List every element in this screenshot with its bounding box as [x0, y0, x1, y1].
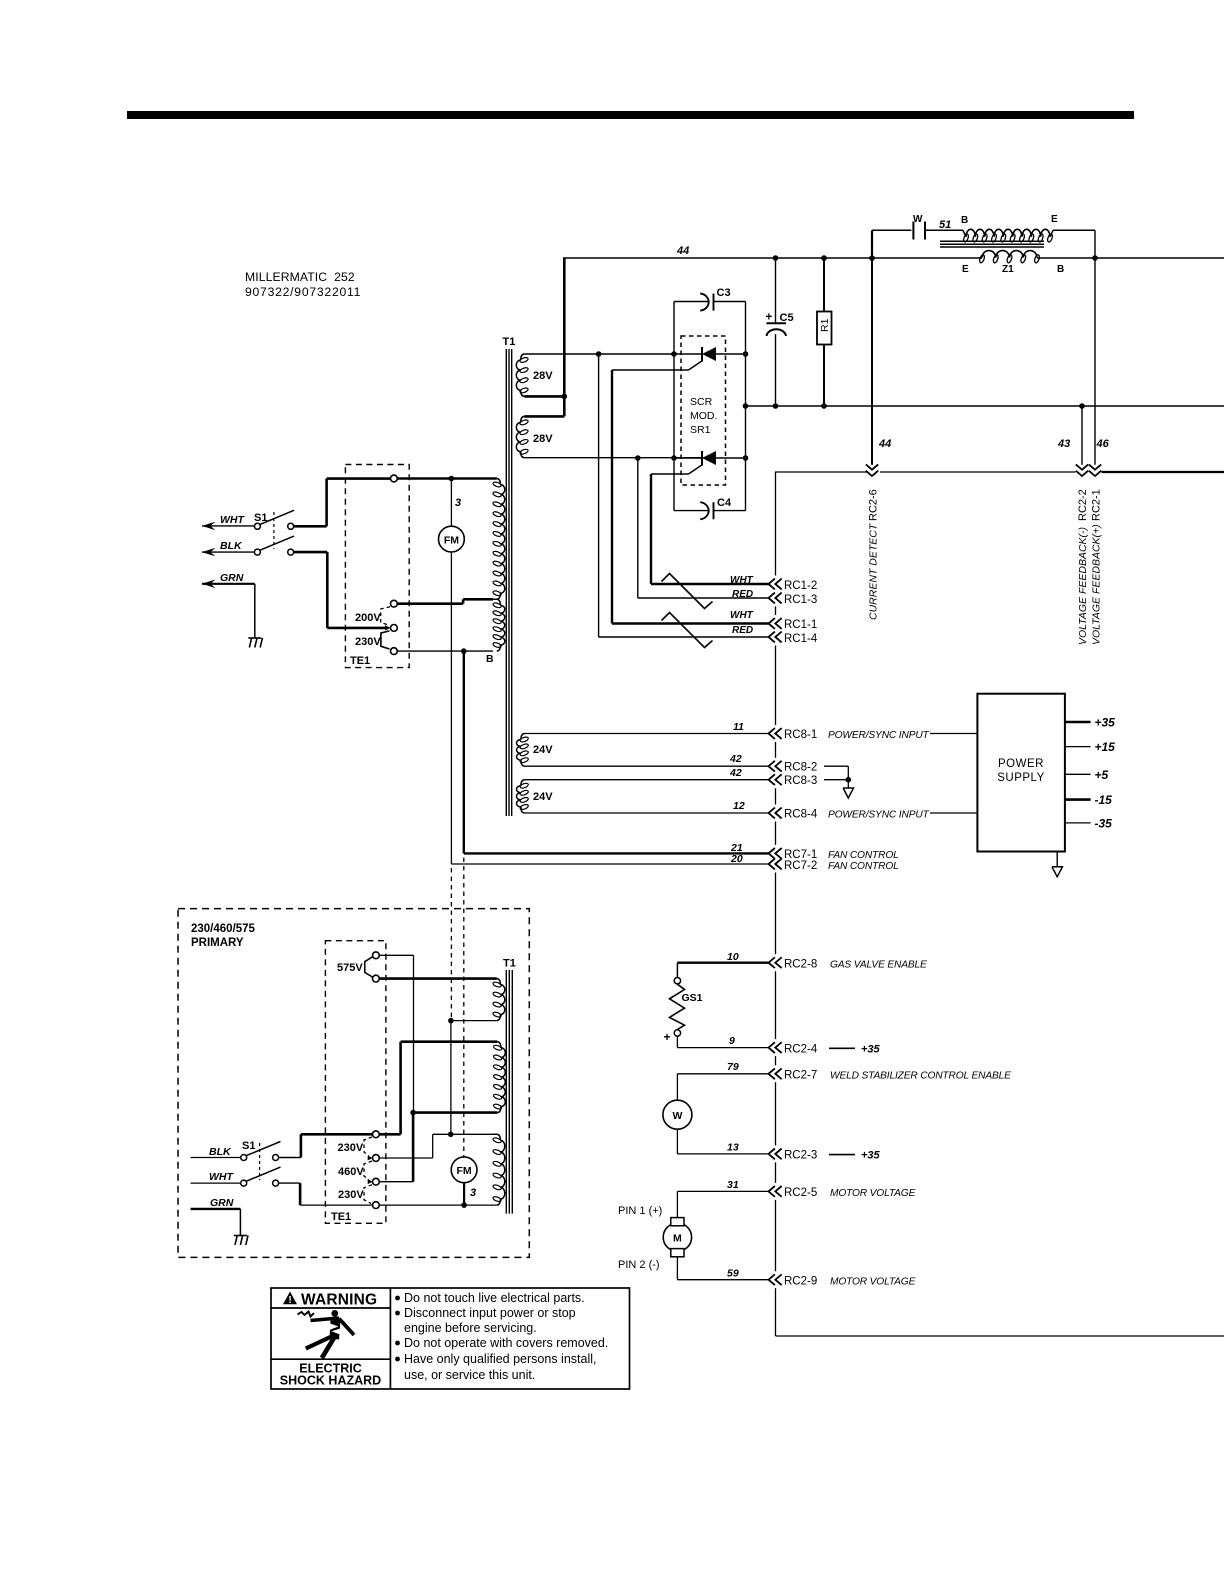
dashed link wire x464 from RC7-1 area	[463, 858, 465, 1158]
wire 59 RC2-9	[677, 1279, 768, 1281]
svg-text:RC1-1: RC1-1	[784, 619, 817, 631]
svg-text:SUPPLY: SUPPLY	[997, 772, 1045, 784]
svg-text:RED: RED	[732, 625, 753, 636]
svg-text:230V: 230V	[338, 1142, 364, 1154]
svg-text:engine before servicing.: engine before servicing.	[404, 1321, 537, 1335]
svg-text:RC2-9: RC2-9	[784, 1275, 817, 1287]
twisted pair mark lower	[662, 613, 713, 648]
svg-text:RC2-8: RC2-8	[784, 959, 817, 971]
motor M wire feed	[676, 1191, 678, 1217]
node dot Z1-B on net44	[1092, 255, 1098, 261]
T1 24V winding 2	[521, 780, 525, 786]
RC8-2/RC8-3 ground tie	[824, 765, 848, 767]
wire thick riser to winding2 top	[401, 1040, 498, 1043]
svg-text:T1: T1	[503, 336, 516, 348]
svg-text:59: 59	[727, 1268, 739, 1280]
input wire WHT with arrow	[202, 522, 216, 531]
connector RC7-1	[769, 848, 775, 859]
svg-text:RC2-4: RC2-4	[784, 1044, 818, 1056]
svg-text:46: 46	[1096, 438, 1110, 450]
wire S1-BLK to TE1-C	[294, 551, 328, 554]
wire 13 RC2-3	[677, 1153, 768, 1155]
svg-text:T1: T1	[503, 958, 516, 970]
svg-text:B: B	[1057, 264, 1064, 275]
svg-text:3: 3	[455, 497, 461, 509]
svg-text:RC2-1: RC2-1	[1091, 489, 1103, 521]
wire bus bottom run to right edge	[776, 1335, 1224, 1337]
svg-text:10: 10	[727, 951, 739, 963]
wire TE1-D to T1 primary bottom	[397, 650, 493, 652]
svg-text:RC2-5: RC2-5	[784, 1187, 817, 1199]
node dot C5 on net44	[773, 255, 779, 261]
TE1 lower brackets dashed	[364, 1137, 372, 1156]
connector RC2-1 chevron	[1089, 464, 1101, 469]
wire winding1 bottom to link	[451, 1020, 497, 1022]
TE1 terminal A	[391, 475, 398, 482]
svg-text:VOLTAGE FEEDBACK(-): VOLTAGE FEEDBACK(-)	[1077, 527, 1089, 645]
svg-text:43: 43	[1057, 438, 1070, 450]
twisted pair mark upper	[662, 574, 713, 609]
svg-text:GRN: GRN	[220, 572, 244, 584]
svg-text:Disconnect input power or stop: Disconnect input power or stop	[404, 1306, 576, 1320]
svg-text:WHT: WHT	[209, 1171, 234, 1183]
svg-text:GS1: GS1	[682, 992, 703, 1004]
power supply -35 output	[1065, 822, 1091, 824]
connector RC1-4	[769, 632, 775, 643]
svg-text:RC1-4: RC1-4	[784, 633, 818, 645]
wire TE1-B to T1 primary tap	[397, 602, 463, 605]
svg-text:MOTOR VOLTAGE: MOTOR VOLTAGE	[830, 1188, 916, 1199]
wire 42 RC8-2	[525, 765, 769, 767]
connector RC7-2	[769, 859, 775, 870]
svg-text:BLK: BLK	[220, 540, 243, 552]
TE1 230V jumper bracket	[381, 631, 390, 649]
power supply input wires	[930, 733, 977, 735]
svg-text:230V: 230V	[338, 1189, 364, 1201]
ground upper	[248, 637, 261, 639]
svg-text:RC2-2: RC2-2	[1077, 489, 1089, 521]
svg-text:44: 44	[676, 245, 689, 257]
svg-text:CURRENT DETECT: CURRENT DETECT	[868, 522, 880, 620]
node dot W-branch on net44	[869, 255, 875, 261]
svg-text:RC2-6: RC2-6	[868, 489, 880, 521]
svg-text:RED: RED	[732, 589, 753, 600]
svg-text:Do not touch live electrical p: Do not touch live electrical parts.	[404, 1291, 585, 1305]
wire net 44 top horizontal	[563, 257, 982, 259]
wire S1-WHT to TE1-A	[294, 525, 327, 528]
fan motor FM lower	[451, 1157, 477, 1183]
svg-text:TE1: TE1	[350, 655, 370, 667]
fan motor FM	[439, 526, 465, 552]
svg-text:PIN 1 (+): PIN 1 (+)	[618, 1205, 662, 1217]
svg-text:GAS VALVE ENABLE: GAS VALVE ENABLE	[830, 960, 927, 971]
node dot R1 on net44	[821, 255, 827, 261]
connector RC1-2	[769, 579, 775, 590]
svg-text:RC2-3: RC2-3	[784, 1150, 817, 1162]
wire RC1-4 red from SCR1 cathode	[598, 354, 600, 637]
inductor Z1 secondary winding E-B on net44	[982, 251, 1037, 258]
svg-text:+: +	[766, 312, 773, 324]
svg-text:C3: C3	[717, 287, 731, 299]
svg-text:+35: +35	[1095, 716, 1116, 730]
T1 28V winding 2	[521, 416, 525, 422]
wire 44 current-detect vertical to RC2-6	[871, 258, 873, 465]
svg-text:WHT: WHT	[730, 575, 754, 586]
T1 lower core	[505, 970, 507, 1214]
svg-text:31: 31	[727, 1179, 739, 1191]
wire TE1-1 to thick riser	[379, 1133, 400, 1136]
input wire BLK lower	[191, 1157, 241, 1159]
ground lower	[234, 1235, 247, 1237]
wire S1-BLK lower to TE1-1	[279, 1157, 301, 1159]
svg-text:RC1-3: RC1-3	[784, 594, 817, 606]
wire TE1-2 to tap link	[379, 1157, 432, 1159]
thyristor SCR1	[674, 353, 702, 355]
thyristor SCR2	[674, 457, 702, 459]
TE1 lower terminal 2 with arrow	[373, 1155, 380, 1162]
wire 79 RC2-7	[677, 1073, 768, 1075]
svg-text:C4: C4	[717, 497, 732, 509]
capacitor C3	[700, 294, 708, 311]
power supply box	[977, 694, 1065, 852]
TE1 lower terminal 3 with arrow	[373, 1178, 380, 1185]
wire 43 vertical	[1079, 403, 1085, 409]
T1 lower winding 2	[497, 1042, 501, 1048]
svg-text:WHT: WHT	[730, 610, 754, 621]
connector RC1-3	[769, 593, 775, 604]
connector RC2-6 chevron	[866, 464, 878, 469]
svg-text:POWER/SYNC INPUT: POWER/SYNC INPUT	[828, 730, 930, 741]
warning bullet list	[395, 1296, 400, 1301]
T1 core	[505, 349, 507, 816]
page top rule	[127, 111, 1134, 119]
svg-text:PRIMARY: PRIMARY	[191, 937, 244, 949]
power supply +5 output	[1065, 773, 1091, 775]
input wire WHT lower	[191, 1182, 241, 1184]
electric shock hazard pictogram	[298, 1312, 315, 1317]
wire TE1-3 to winding2 bottom riser	[379, 1181, 413, 1183]
svg-text:Z1: Z1	[1002, 264, 1014, 275]
svg-text:RC2-7: RC2-7	[784, 1070, 817, 1082]
wire TE1-A to T1 primary top	[397, 477, 496, 480]
svg-text:R1: R1	[819, 318, 831, 332]
warning box frame	[271, 1288, 630, 1389]
wire RC1-2 wht from SCR2 gate	[651, 583, 769, 585]
svg-text:230/460/575: 230/460/575	[191, 923, 256, 935]
svg-text:RC7-2: RC7-2	[784, 860, 817, 872]
svg-text:+: +	[664, 1030, 671, 1044]
TE1 200V bracket dashed	[381, 607, 390, 625]
wire SCR output net y406	[746, 405, 1224, 407]
TE1 lower 575V terminals	[373, 952, 380, 959]
SCR module outer box with C3/C4	[674, 301, 709, 303]
input wire GRN with arrow to ground	[202, 580, 216, 589]
gas solenoid GS1	[676, 963, 678, 978]
wire main bus x775 with connector gaps	[775, 472, 777, 576]
svg-text:575V: 575V	[337, 962, 363, 974]
connector RC1-1	[769, 618, 775, 629]
terminal board TE1 upper dashed box	[345, 465, 409, 668]
capacitor W (plug W / 51)	[871, 230, 873, 258]
motor W weld stabilizer	[676, 1074, 678, 1100]
wire 12 RC8-4	[525, 812, 769, 814]
wire 9 RC2-4	[677, 1047, 768, 1049]
wire 575V bottom terminal to winding1 top	[379, 977, 496, 980]
svg-text:POWER: POWER	[998, 758, 1044, 770]
T1 lower winding 1	[497, 979, 501, 985]
power supply +15 output	[1065, 746, 1091, 748]
svg-text:28V: 28V	[533, 433, 553, 445]
TE1 terminal B 200V	[391, 600, 398, 607]
svg-text:MILLERMATIC 252: MILLERMATIC 252	[245, 270, 355, 284]
wire fan control RC7-2	[451, 863, 768, 865]
svg-text:RC8-2: RC8-2	[784, 762, 817, 774]
svg-text:SHOCK HAZARD: SHOCK HAZARD	[280, 1374, 381, 1388]
svg-text:C5: C5	[780, 312, 794, 324]
svg-text:51: 51	[939, 219, 951, 231]
TE1 terminal C	[391, 625, 398, 632]
svg-text:12: 12	[733, 800, 745, 812]
svg-text:!: !	[288, 1295, 291, 1306]
SCR1 gate wire	[689, 361, 703, 371]
wire winding3 bottom	[379, 1204, 496, 1206]
SCR2 gate wire	[689, 465, 703, 475]
svg-text:S1: S1	[242, 1140, 255, 1152]
svg-text:VOLTAGE FEEDBACK(+): VOLTAGE FEEDBACK(+)	[1091, 524, 1103, 645]
input wire BLK with arrow	[202, 548, 216, 557]
TE1 lower terminal 4	[373, 1202, 380, 1209]
svg-text:42: 42	[729, 767, 742, 779]
TE1 lower terminal 1	[373, 1131, 380, 1138]
svg-text:FM: FM	[444, 535, 459, 547]
svg-text:+5: +5	[1095, 768, 1109, 782]
svg-text:RC8-1: RC8-1	[784, 729, 817, 741]
dashed link wire x451 from RC7-2 area	[450, 868, 452, 1021]
svg-text:WARNING: WARNING	[301, 1292, 377, 1309]
svg-text:FM: FM	[457, 1165, 472, 1177]
svg-text:WHT: WHT	[220, 514, 245, 526]
svg-text:9: 9	[729, 1035, 735, 1047]
svg-text:-15: -15	[1095, 793, 1113, 807]
svg-text:+15: +15	[1095, 740, 1116, 754]
svg-text:BLK: BLK	[209, 1146, 232, 1158]
svg-text:907322/907322011: 907322/907322011	[245, 285, 361, 299]
dashed box 230/460/575 PRIMARY	[178, 909, 529, 1258]
SCR module dashed box SR1	[681, 336, 726, 485]
wire winding2 bottom	[413, 1111, 497, 1114]
T1 24V winding 1	[521, 734, 525, 740]
wire S1-WHT lower to TE1-4	[279, 1182, 301, 1184]
svg-text:Do not operate with covers rem: Do not operate with covers removed.	[404, 1336, 608, 1350]
svg-text:20: 20	[730, 853, 743, 865]
connector RC2-2 chevron	[1076, 464, 1088, 469]
wire 11 RC8-1	[525, 733, 769, 735]
svg-text:SCR: SCR	[690, 396, 713, 408]
wire fan control RC7-1	[463, 651, 465, 853]
power supply -15 output	[1065, 798, 1091, 801]
wire RC1-3 red from SCR2 cathode	[637, 458, 639, 598]
svg-text:PIN 2 (-): PIN 2 (-)	[618, 1259, 660, 1271]
svg-text:44: 44	[878, 438, 891, 450]
resistor R1	[823, 258, 825, 312]
Z1 core	[940, 240, 1044, 242]
svg-text:W: W	[672, 1110, 682, 1122]
svg-text:B: B	[961, 215, 968, 226]
power supply +35 output	[1065, 721, 1091, 724]
capacitor C5 electrolytic	[775, 258, 777, 323]
svg-text:FAN CONTROL: FAN CONTROL	[828, 861, 899, 872]
svg-text:42: 42	[729, 753, 742, 765]
svg-text:Have only qualified persons in: Have only qualified persons install,	[404, 1352, 596, 1366]
svg-text:+35: +35	[861, 1044, 881, 1056]
T1 lower winding 3	[451, 1133, 493, 1135]
inductor Z1 primary winding B-E	[963, 230, 966, 237]
svg-text:230V: 230V	[355, 636, 381, 648]
svg-text:200V: 200V	[355, 612, 381, 624]
svg-text:79: 79	[727, 1061, 739, 1073]
svg-text:GRN: GRN	[210, 1197, 234, 1209]
svg-text:RC8-3: RC8-3	[784, 775, 817, 787]
capacitor C4	[700, 502, 708, 519]
svg-text:WELD STABILIZER CONTROL ENABLE: WELD STABILIZER CONTROL ENABLE	[830, 1071, 1011, 1082]
svg-text:13: 13	[727, 1142, 739, 1154]
wire 575V top terminal to T1	[379, 954, 413, 956]
wire 10 gas valve RC2-8	[677, 962, 768, 964]
T1 primary winding section1	[497, 479, 501, 485]
T1 28V winding 1	[521, 354, 525, 360]
svg-text:W: W	[913, 214, 923, 225]
svg-text:3: 3	[470, 1187, 476, 1199]
svg-text:use, or service this unit.: use, or service this unit.	[404, 1368, 535, 1382]
svg-text:FAN CONTROL: FAN CONTROL	[828, 850, 899, 861]
warning triangle icon	[283, 1292, 297, 1305]
T1 primary winding section2	[493, 599, 500, 605]
svg-text:SR1: SR1	[690, 424, 711, 436]
wire 42 RC8-3	[525, 779, 769, 781]
wire net y472 to weld output	[775, 471, 867, 473]
wire RC1-1 wht from SCR1 gate	[612, 622, 769, 624]
terminal board TE1 lower dashed box	[325, 941, 386, 1224]
fan motor FM branch	[450, 479, 452, 527]
input wire GRN lower to ground	[191, 1208, 241, 1210]
wire 28V junction vertical thick x564	[563, 258, 566, 416]
svg-text:MOD.: MOD.	[690, 410, 717, 422]
svg-text:TE1: TE1	[331, 1211, 351, 1223]
svg-text:E: E	[1051, 214, 1058, 225]
svg-text:RC1-2: RC1-2	[784, 580, 817, 592]
svg-text:MOTOR VOLTAGE: MOTOR VOLTAGE	[830, 1276, 916, 1287]
svg-text:B: B	[486, 653, 494, 665]
wire 46 vertical from Z1-B	[1094, 230, 1096, 464]
svg-text:+35: +35	[861, 1150, 881, 1162]
svg-text:460V: 460V	[338, 1166, 364, 1178]
svg-text:M: M	[673, 1233, 682, 1245]
svg-text:-35: -35	[1095, 816, 1113, 830]
svg-text:24V: 24V	[533, 744, 553, 756]
wire 31 RC2-5	[677, 1190, 768, 1192]
svg-text:28V: 28V	[533, 370, 553, 382]
svg-text:POWER/SYNC INPUT: POWER/SYNC INPUT	[828, 810, 930, 821]
svg-text:11: 11	[733, 721, 744, 733]
svg-text:E: E	[962, 264, 969, 275]
svg-text:24V: 24V	[533, 791, 553, 803]
svg-text:RC8-4: RC8-4	[784, 809, 818, 821]
power supply ground	[1056, 852, 1058, 867]
TE1 terminal D	[391, 648, 398, 655]
